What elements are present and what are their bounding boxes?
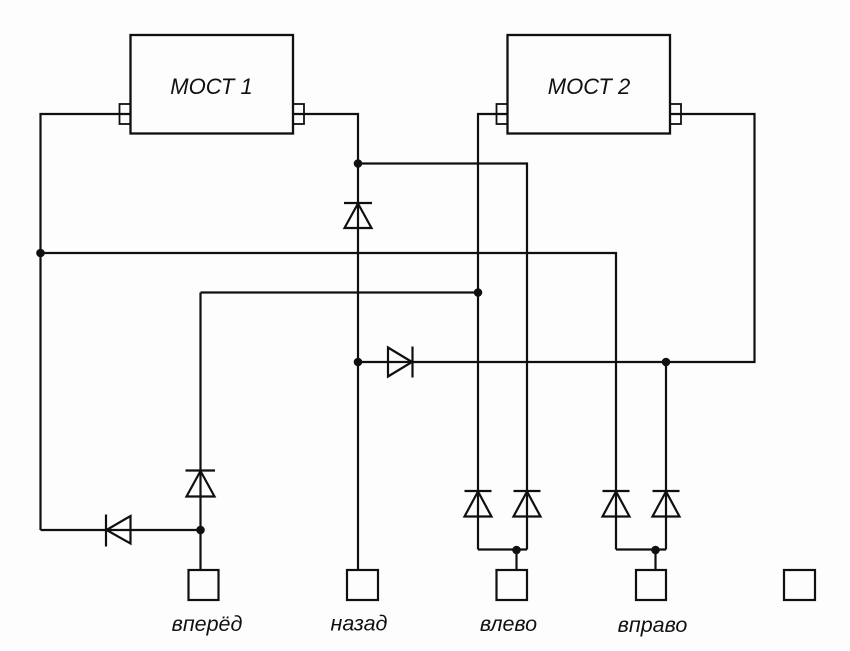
wire horizontal y=530 left bus to вперёд junction [41,529,201,531]
diode D7 (вправо left leg x=616, pointing up) [603,491,630,517]
junction dot at x=666 y=362 [662,358,671,367]
wire вправо pair bottom bar with stub [616,550,666,571]
terminal square вперёд [189,570,219,600]
svg-text:вперёд: вперёд [172,612,243,636]
wire МОСТ1 left tab to left bus corner and down [41,114,131,530]
label вправо [618,613,688,637]
wire влево pair bottom bar with stub [478,550,527,571]
pin tab МОСТ 2 right [670,104,681,124]
junction dot вправо bar [651,546,660,555]
wire horizontal y=253 from left bus to x=616 then down [41,253,617,550]
diode D4 (in line y=530, pointing left) [106,515,131,547]
junction dot влево bar [512,546,521,555]
label назад [331,612,388,636]
diode D3 (on x=200.5 vertical, pointing up) [186,471,216,497]
block МОСТ 1 [131,35,294,134]
label вперёд [172,612,243,636]
wire horizontal y=163.5 from node C to x=527 then down [358,164,527,550]
svg-text:МОСТ 2: МОСТ 2 [548,74,630,99]
pin tab МОСТ 1 left [120,104,131,124]
wire МОСТ2 right tab right, down, and left along y=362 [358,114,755,362]
pin tab МОСТ 1 right [293,104,304,124]
diode D2 (in line y=362, pointing right) [388,347,413,378]
svg-text:назад: назад [331,612,388,636]
pin tab МОСТ 2 left [497,104,508,124]
block МОСТ 2 [508,35,671,134]
junction dot at x=200.5 y=530 [196,526,205,535]
junction dot at node D y=292.5 [474,288,483,297]
terminal square назад [347,570,378,600]
diode D1 (on node C vertical, pointing up, below МОСТ1 right) [344,203,372,228]
junction dot at node C y=163.5 [354,159,363,168]
diode D5 (влево left leg x=478, pointing up) [465,491,492,517]
svg-text:влево: влево [480,612,537,636]
terminal square spare (bottom right) [784,570,815,600]
svg-text:вправо: вправо [618,613,688,637]
wire МОСТ2 left tab to corner then down (node D vertical) [478,114,508,550]
diode D8 (вправо right leg x=666, pointing up) [653,491,680,517]
junction dot at left bus y=253 [36,249,45,258]
terminal square вправо [636,570,666,600]
label влево [480,612,537,636]
wire vertical x=666 from node at y=362 down [665,362,667,550]
wire МОСТ1 right tab right then down (node C vertical) [293,114,358,570]
svg-text:МОСТ 1: МОСТ 1 [170,74,252,99]
junction dot at node C y=362 [354,358,363,367]
wire vertical x=200.5 down to вперёд terminal [199,293,201,571]
diode D6 (влево right leg x=527, pointing up) [514,491,541,517]
terminal square влево [497,570,528,600]
wire horizontal y=292.5 from x=200.5 corner to node D [201,291,479,293]
